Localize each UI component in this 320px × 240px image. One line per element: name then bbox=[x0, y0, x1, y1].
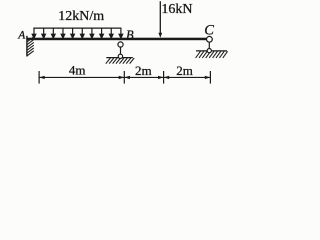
label B bbox=[126, 28, 134, 42]
support A hatching bbox=[27, 37, 34, 56]
support A wall line bbox=[26, 36, 28, 57]
support C hinge circle at beam end bbox=[207, 36, 213, 42]
label A bbox=[17, 29, 26, 41]
dimension tick at A end bbox=[38, 71, 40, 84]
dimension tick at load point bbox=[163, 71, 165, 84]
dimension label 4m bbox=[69, 63, 86, 78]
svg-text:A: A bbox=[17, 29, 26, 41]
support B lower hinge circle bbox=[118, 54, 122, 58]
support B ground line bbox=[106, 57, 133, 59]
svg-text:2m: 2m bbox=[176, 63, 193, 78]
distributed load top line bbox=[33, 27, 121, 29]
beam AC bbox=[27, 38, 207, 41]
label C bbox=[204, 23, 214, 39]
svg-text:12kN/m: 12kN/m bbox=[58, 9, 104, 24]
dimension line bbox=[39, 76, 210, 78]
support B ground hatching bbox=[106, 58, 134, 64]
dimension label 2m (load to C) bbox=[176, 63, 193, 78]
support C lower hinge circle bbox=[207, 49, 211, 53]
svg-text:4m: 4m bbox=[69, 63, 86, 78]
load value label 12kN/m bbox=[58, 9, 104, 24]
support C ground hatching bbox=[196, 51, 228, 58]
dimension tick at B bbox=[123, 71, 125, 84]
distributed load arrows bbox=[32, 28, 123, 38]
dimension tick at C bbox=[209, 71, 211, 84]
svg-text:B: B bbox=[126, 28, 134, 42]
svg-text:2m: 2m bbox=[135, 63, 152, 78]
support B link rod bbox=[120, 46, 122, 55]
point load arrow 16kN bbox=[158, 1, 162, 38]
dimension label 2m (B to load) bbox=[135, 63, 152, 78]
support C link rod bbox=[208, 41, 210, 50]
svg-text:16kN: 16kN bbox=[161, 2, 192, 17]
support B upper hinge circle bbox=[118, 42, 123, 47]
support C ground line bbox=[196, 50, 227, 52]
load value label 16kN bbox=[161, 2, 192, 17]
dimension arrowheads bbox=[39, 76, 210, 79]
